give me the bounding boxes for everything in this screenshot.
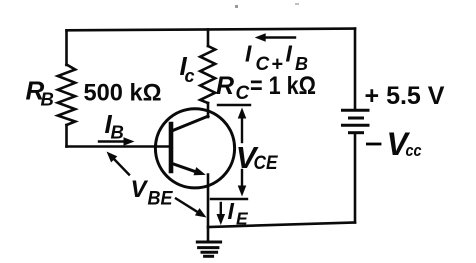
arrowhead VBE-emitter bbox=[195, 208, 207, 217]
svg-text:BE: BE bbox=[148, 189, 174, 210]
arrowhead Q1 emitter bbox=[194, 167, 206, 175]
svg-text:I: I bbox=[245, 41, 252, 67]
wire collector lead bbox=[207, 103, 210, 117]
arrow VBE-emitter line bbox=[176, 199, 198, 213]
wire right branch lower bbox=[354, 134, 357, 223]
wire left branch lower bbox=[65, 125, 68, 147]
arrowhead IB bbox=[124, 137, 135, 146]
resistor RB bbox=[58, 65, 75, 126]
transistor Q1 body bbox=[155, 109, 234, 188]
svg-text:500 kΩ: 500 kΩ bbox=[84, 80, 162, 107]
battery BT1 plates bbox=[343, 110, 369, 132]
svg-text:cc: cc bbox=[406, 141, 422, 160]
svg-text:I: I bbox=[286, 41, 293, 67]
wire emitter lead bbox=[207, 175, 210, 243]
arrow VCE line lower bbox=[241, 170, 243, 188]
svg-text:I: I bbox=[228, 198, 235, 224]
svg-text:B: B bbox=[295, 54, 308, 74]
arrowhead VBE-base bbox=[107, 152, 118, 163]
transistor Q1 emitter diagonal bbox=[172, 163, 198, 172]
arrow VCE line upper bbox=[241, 116, 243, 142]
svg-text:= 1 kΩ: = 1 kΩ bbox=[250, 72, 316, 100]
wire base bbox=[67, 145, 170, 148]
svg-text:E: E bbox=[236, 209, 249, 229]
arrow IB line bbox=[99, 140, 125, 142]
svg-text:CE: CE bbox=[254, 153, 279, 174]
speck artifact 2 bbox=[295, 3, 299, 5]
arrowhead VCE top bbox=[238, 108, 247, 119]
transistor Q1 base bar bbox=[169, 124, 174, 171]
wire right branch upper bbox=[354, 29, 357, 109]
svg-text:V: V bbox=[131, 176, 149, 203]
svg-text:B: B bbox=[41, 89, 54, 110]
svg-text:R: R bbox=[216, 72, 234, 100]
svg-text:+ 5.5 V: + 5.5 V bbox=[365, 82, 445, 110]
arrowhead IE bbox=[217, 214, 226, 225]
svg-text:c: c bbox=[185, 66, 195, 86]
wire top rail bbox=[67, 29, 356, 31]
svg-text:B: B bbox=[111, 122, 124, 143]
arrow IC+IB line bbox=[264, 36, 295, 38]
arrowhead IC+IB bbox=[255, 33, 266, 42]
svg-text:+: + bbox=[272, 54, 284, 76]
svg-text:C: C bbox=[236, 83, 250, 104]
tick VCE top bbox=[218, 104, 250, 106]
transistor Q1 collector diagonal bbox=[172, 116, 209, 131]
resistor RC bbox=[200, 46, 215, 103]
speck artifact 1 bbox=[235, 5, 238, 8]
wire bottom rail bbox=[208, 223, 355, 228]
tick VCE bottom bbox=[211, 198, 247, 200]
wire left branch upper bbox=[65, 30, 68, 65]
arrow VBE-base line bbox=[113, 158, 129, 175]
label -Vcc minus bbox=[366, 143, 381, 146]
svg-text:C: C bbox=[256, 54, 270, 75]
ground bbox=[197, 242, 220, 256]
arrow IE line bbox=[220, 203, 222, 215]
wire collector top stub bbox=[207, 29, 210, 46]
arrowhead VCE bottom bbox=[238, 186, 247, 197]
